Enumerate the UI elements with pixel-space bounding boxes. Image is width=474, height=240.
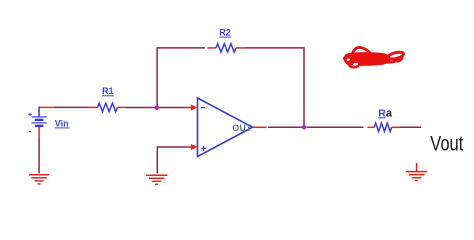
node junction at output [302, 125, 307, 130]
annotation red scribble [344, 47, 405, 67]
resistor Ra [368, 123, 401, 131]
svg-text:Vout: Vout [430, 132, 463, 156]
wire feedback top right segment and right column [246, 48, 305, 127]
wire R1 to inverting input [126, 107, 188, 109]
label Ra [378, 107, 393, 119]
ground right [406, 163, 427, 181]
wire non-inverting input from ground corner [157, 147, 187, 174]
wire Ra to output terminal [400, 126, 421, 128]
svg-text:OUT: OUT [232, 123, 252, 133]
label Vout [430, 132, 463, 156]
label R1 [102, 86, 114, 96]
wire battery top to R1 [39, 106, 97, 108]
svg-text:Vin: Vin [55, 118, 69, 128]
wire battery to ground left [38, 137, 40, 173]
op-amp U1 inverting input pin arrow [188, 104, 198, 110]
wire feedback left column and top segment [157, 48, 205, 108]
label Vin [55, 118, 70, 128]
svg-text:a: a [386, 107, 393, 119]
op-amp U1 plus sign [201, 146, 206, 151]
wire output to junction [268, 126, 304, 128]
svg-text:R1: R1 [102, 86, 114, 96]
node junction at inverting input [154, 105, 159, 110]
op-amp U1 OUT pin label [232, 123, 252, 133]
resistor R2 [208, 44, 246, 52]
op-amp U1 non-inverting input pin arrow [188, 144, 198, 150]
voltage source Vin battery [32, 107, 47, 138]
resistor R1 [98, 103, 126, 111]
op-amp U1 body [198, 98, 253, 157]
voltage source Vin polarity marks [29, 113, 32, 132]
svg-text:R2: R2 [219, 28, 231, 38]
label R2 [219, 28, 231, 38]
ground middle (below non-inverting input) [146, 175, 167, 184]
ground left [29, 175, 49, 184]
wire junction to Ra [307, 126, 364, 128]
op-amp U1 minus sign [201, 107, 205, 109]
op-amp U1 output pin [253, 126, 267, 128]
